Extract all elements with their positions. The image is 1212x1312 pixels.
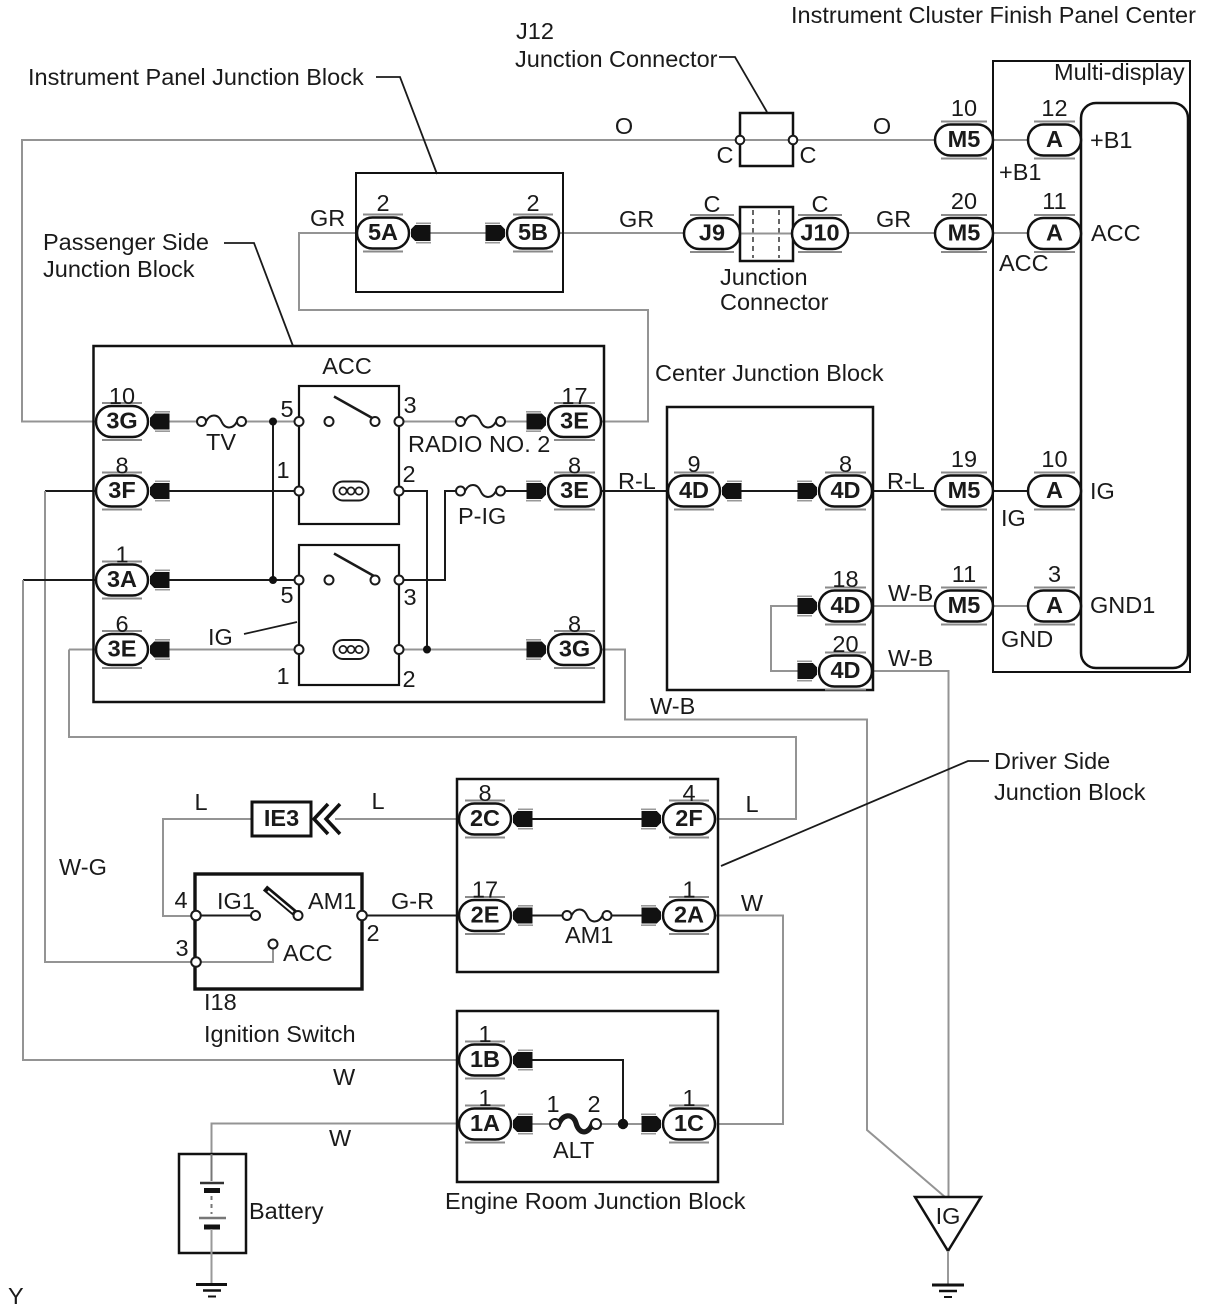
svg-text:J12: J12	[516, 18, 554, 44]
wire W-B : 4D(20) to IG ground	[872, 671, 949, 1197]
ground below battery	[196, 1285, 227, 1297]
svg-text:W-B: W-B	[650, 693, 695, 719]
svg-text:RADIO NO. 2: RADIO NO. 2	[408, 431, 550, 457]
svg-text:17: 17	[561, 383, 587, 409]
wire W-G stub 3F	[45, 490, 96, 492]
svg-text:1: 1	[276, 663, 289, 689]
svg-text:3A: 3A	[107, 566, 137, 592]
wire 3E(6) stub	[69, 649, 96, 651]
svg-text:1A: 1A	[470, 1110, 500, 1136]
svg-text:+B1: +B1	[1090, 127, 1132, 153]
wire bracket joining 4D(18) and 4D(20)	[771, 606, 801, 671]
svg-text:W-B: W-B	[888, 645, 933, 671]
connector J10 pin C	[792, 215, 848, 252]
svg-text:A: A	[1046, 126, 1063, 152]
node junction dot IG coil output	[423, 646, 431, 654]
arrow into 2C	[513, 809, 533, 828]
svg-text:10: 10	[951, 95, 977, 121]
svg-text:Junction Block: Junction Block	[994, 779, 1146, 805]
arrow into 2E	[513, 906, 533, 925]
svg-text:11: 11	[1042, 188, 1066, 214]
wire AM1 fuse to 2A arrow	[612, 915, 646, 917]
ground below IG triangle	[932, 1285, 964, 1297]
svg-text:Junction Block: Junction Block	[43, 256, 195, 282]
svg-text:Passenger Side: Passenger Side	[43, 229, 209, 255]
arrow into 3E(6)	[150, 640, 170, 659]
wire 3A row internal to IG relay pin 5	[166, 579, 299, 581]
wire 1A arrow to ALT fuse	[529, 1123, 551, 1125]
relay ACC switch contacts	[325, 417, 334, 426]
relay IG switch blade	[334, 554, 374, 577]
wire 1B arrow down to ALT junction	[529, 1060, 623, 1124]
leader line IG relay	[244, 622, 297, 634]
svg-text:Junction Connector: Junction Connector	[515, 46, 718, 72]
svg-text:4D: 4D	[830, 657, 860, 683]
svg-text:8: 8	[568, 611, 581, 637]
fuse TV	[197, 416, 246, 428]
connector A pin 11	[1028, 215, 1081, 252]
svg-text:3: 3	[1048, 561, 1061, 587]
wire W : battery to 1A	[212, 1124, 460, 1181]
svg-text:2C: 2C	[470, 805, 500, 831]
wire L : 3E(6) down around to 2F	[69, 650, 796, 820]
connector 4D pin 9	[668, 473, 720, 510]
svg-text:R-L: R-L	[887, 468, 925, 494]
wire M5(20) to A(11)	[993, 232, 1028, 234]
svg-text:3E: 3E	[560, 477, 589, 503]
svg-text:M5: M5	[948, 126, 981, 152]
arrow into 3E(17)	[526, 412, 546, 431]
wire M5(10) to A(12)	[993, 139, 1028, 141]
arrow into 1A	[513, 1114, 533, 1133]
svg-text:ACC: ACC	[999, 250, 1049, 276]
wire RADIO fuse to 3E(17) arrow	[505, 421, 530, 423]
relay IG pin 1	[295, 645, 304, 654]
connector M5 pin 11	[935, 588, 993, 625]
arrow into 3E(8)	[526, 481, 546, 500]
connector J9 pin C	[684, 215, 740, 252]
wire R-L : 4D(8) to M5(19)	[872, 490, 935, 492]
svg-text:10: 10	[109, 383, 135, 409]
wire W : 3A down and right to 1B	[23, 580, 459, 1060]
connector M5 pin 10	[935, 122, 993, 159]
svg-text:Driver Side: Driver Side	[994, 748, 1110, 774]
svg-text:ALT: ALT	[553, 1137, 594, 1163]
svg-text:A: A	[1046, 592, 1063, 618]
arrow into 4D(9)	[722, 481, 742, 500]
svg-text:3: 3	[403, 584, 416, 610]
connector M5 pin 19	[935, 473, 993, 510]
svg-text:L: L	[194, 789, 207, 815]
instrument panel junction block box	[356, 173, 563, 292]
connector 3F pin 8	[96, 473, 148, 510]
wire node junction TV/3A vertical	[272, 422, 274, 581]
svg-text:8: 8	[568, 453, 581, 479]
wire IG relay pin 3 up to P-IG fuse	[399, 491, 456, 580]
svg-text:6: 6	[115, 611, 128, 637]
svg-text:8: 8	[839, 451, 852, 477]
multi-display inner rounded box	[1081, 103, 1188, 668]
fuse P-IG	[456, 485, 505, 497]
svg-text:O: O	[873, 113, 891, 139]
svg-text:Ignition Switch: Ignition Switch	[204, 1021, 356, 1047]
relay IG pin 2	[395, 645, 404, 654]
svg-text:GND1: GND1	[1090, 592, 1155, 618]
svg-text:3F: 3F	[108, 477, 135, 503]
svg-text:1: 1	[546, 1091, 559, 1117]
junction connector J12 box	[740, 113, 793, 166]
relay IG box	[299, 545, 399, 685]
svg-text:IG: IG	[1001, 505, 1026, 531]
connector 2F pin 4	[663, 801, 715, 838]
arrow into 2F	[641, 809, 661, 828]
junction connector J9/J10 box	[740, 207, 793, 261]
svg-text:ACC: ACC	[1091, 220, 1141, 246]
ignition switch key blade	[265, 888, 296, 914]
wire W-B : 3G(8) to IG ground	[601, 650, 945, 1198]
driver side junction block box	[457, 779, 718, 972]
relay ACC box	[299, 386, 399, 524]
svg-text:2: 2	[402, 461, 415, 487]
wire M5(19) to A(10)	[993, 490, 1028, 492]
svg-text:1: 1	[478, 1021, 491, 1047]
ignition switch pin 3	[191, 957, 201, 967]
node junction dot TV/relay feed	[269, 418, 277, 426]
wire W : 2A down to 1C	[715, 916, 783, 1125]
arrow into 5B	[485, 223, 505, 242]
svg-text:C: C	[800, 142, 817, 168]
wire through J12 box	[740, 139, 793, 141]
ignition switch ACC contact	[269, 940, 278, 949]
wire 4D(9) to 4D(8) internal	[738, 490, 801, 492]
connector 3E pin 17	[548, 403, 601, 440]
connector 3A pin 1	[96, 562, 148, 599]
svg-text:A: A	[1046, 220, 1063, 246]
connector 3G pin 8	[548, 631, 601, 668]
svg-text:AM1: AM1	[308, 888, 356, 914]
svg-text:11: 11	[952, 561, 976, 587]
wire 3F row internal to ACC coil pin 1	[166, 490, 299, 492]
wire G-R : ignition pin 2 to 2E	[367, 915, 460, 917]
svg-text:GR: GR	[876, 206, 911, 232]
svg-text:3E: 3E	[108, 636, 137, 662]
wire through J9/J10 box	[741, 233, 792, 235]
wire O : +B1 feed from left edge to J12	[22, 140, 735, 422]
connector 5B pin 2	[507, 215, 559, 252]
svg-text:C: C	[704, 191, 721, 217]
relay ACC pin 3	[395, 417, 404, 426]
connector A pin 10	[1028, 473, 1081, 510]
svg-text:J10: J10	[800, 220, 839, 246]
connector 2A pin 1	[663, 897, 715, 934]
wire ignition pin 4 to IG1 contact	[201, 915, 252, 917]
ignition switch IG1 contact	[251, 911, 260, 920]
svg-text:L: L	[745, 791, 758, 817]
svg-text:Center Junction Block: Center Junction Block	[655, 360, 884, 386]
svg-text:12: 12	[1041, 95, 1067, 121]
svg-text:2: 2	[376, 190, 389, 216]
connector 4D pin 18	[819, 588, 872, 625]
connector 4D pin 8	[819, 473, 872, 510]
svg-text:2F: 2F	[675, 805, 702, 831]
svg-text:20: 20	[832, 631, 858, 657]
svg-text:2: 2	[366, 920, 379, 946]
center junction block box	[667, 407, 873, 690]
wire GR feed : 3E(17) to 5A	[299, 233, 648, 422]
multi-display outer box	[993, 61, 1190, 672]
svg-text:W: W	[329, 1125, 352, 1151]
svg-text:ACC: ACC	[283, 940, 333, 966]
connector 3E pin 8	[548, 473, 601, 510]
svg-text:3: 3	[175, 935, 188, 961]
svg-text:IG: IG	[936, 1203, 961, 1229]
arrow into 4D(20)	[797, 661, 817, 680]
passenger side junction block box	[94, 346, 605, 702]
wire M5(11) to A(3)	[993, 605, 1028, 607]
svg-text:GND: GND	[1001, 626, 1053, 652]
svg-text:1C: 1C	[674, 1110, 704, 1136]
wire W-G : 3F down to ignition pin 3	[45, 491, 192, 962]
svg-text:C: C	[812, 191, 829, 217]
connector 2E pin 17	[459, 897, 511, 934]
wire 2E arrow to AM1 fuse	[529, 915, 563, 917]
connector M5 pin 20	[935, 215, 993, 252]
junction connector J9/J10 dashed splice lines	[752, 210, 754, 258]
svg-text:3: 3	[403, 392, 416, 418]
svg-text:ACC: ACC	[322, 353, 372, 379]
svg-text:4: 4	[682, 780, 695, 806]
svg-text:AM1: AM1	[565, 922, 613, 948]
svg-text:O: O	[615, 113, 633, 139]
wire ignition pin 3 to ACC contact stem	[201, 949, 274, 963]
leader line Instrument Panel Junction Block	[376, 77, 437, 174]
engine room junction block box	[457, 1011, 718, 1182]
svg-text:1B: 1B	[470, 1046, 500, 1072]
relay ACC pin 5	[295, 417, 304, 426]
svg-text:5: 5	[280, 396, 293, 422]
relay ACC pin 1	[295, 487, 304, 496]
relay IG coil	[334, 640, 369, 659]
wire W-B : 4D(18) to M5(11)	[872, 605, 935, 607]
ground point IG triangle	[915, 1197, 981, 1251]
ignition switch AM1 contact	[294, 911, 303, 920]
connector 3E pin 6	[96, 631, 148, 668]
wire 2C to 2F internal	[529, 818, 645, 820]
svg-text:17: 17	[472, 877, 498, 903]
svg-text:A: A	[1046, 477, 1063, 503]
connector 1C pin 1	[663, 1106, 715, 1143]
svg-text:C: C	[717, 142, 734, 168]
arrow into 4D(8)	[797, 481, 817, 500]
node junction dot ALT output	[618, 1119, 628, 1129]
svg-text:Battery: Battery	[249, 1198, 324, 1224]
wire L : IE3 to ignition pin 4	[163, 819, 252, 916]
arrow into 5A	[411, 223, 431, 242]
fuse box IE3	[252, 802, 311, 836]
svg-text:Junction: Junction	[720, 264, 808, 290]
arrow into 3G(10)	[150, 412, 170, 431]
svg-text:GR: GR	[619, 206, 654, 232]
wire GR : 5B to J9	[559, 232, 684, 234]
relay IG switch contacts	[325, 576, 334, 585]
wire O : J12 to M5(10)	[798, 139, 935, 141]
svg-text:GR: GR	[310, 205, 345, 231]
svg-text:1: 1	[478, 1085, 491, 1111]
svg-text:G-R: G-R	[391, 888, 434, 914]
svg-text:3E: 3E	[560, 408, 589, 434]
wire 3G row : arrow to TV fuse	[166, 421, 197, 423]
leader line Driver Side Junction Block	[721, 761, 989, 866]
svg-text:Connector: Connector	[720, 289, 829, 315]
svg-text:9: 9	[687, 451, 700, 477]
relay IG pin 3	[395, 576, 404, 585]
wire 5A to 5B	[427, 232, 489, 234]
svg-text:Multi-display: Multi-display	[1054, 59, 1185, 85]
svg-text:2: 2	[526, 190, 539, 216]
wire ALT fuse to 1C arrow	[601, 1123, 646, 1125]
svg-text:W: W	[333, 1064, 356, 1090]
svg-text:1: 1	[115, 542, 128, 568]
wire IG coil pin 2 to 3G(8) arrow	[399, 649, 530, 651]
svg-text:5B: 5B	[518, 219, 548, 245]
svg-text:8: 8	[115, 453, 128, 479]
svg-text:2E: 2E	[471, 902, 500, 928]
svg-text:1: 1	[682, 1085, 695, 1111]
battery cell plates	[199, 1154, 226, 1283]
arrow into 3G(8)	[526, 640, 546, 659]
arrow into 3A(1)	[150, 570, 170, 589]
svg-text:8: 8	[478, 780, 491, 806]
svg-text:2: 2	[402, 666, 415, 692]
svg-text:Instrument Panel Junction Bloc: Instrument Panel Junction Block	[28, 64, 364, 90]
node junction dot 3A row	[269, 576, 277, 584]
arrow into 2A	[641, 906, 661, 925]
svg-text:3G: 3G	[106, 408, 137, 434]
svg-text:Y: Y	[8, 1283, 24, 1309]
arrow into 1B	[513, 1050, 533, 1069]
svg-text:L: L	[371, 788, 384, 814]
arrow into 3F(8)	[150, 481, 170, 500]
svg-text:M5: M5	[948, 477, 981, 503]
junction connector J12 terminal circles	[736, 136, 745, 145]
svg-text:Instrument Cluster Finish Pane: Instrument Cluster Finish Panel Center	[791, 2, 1196, 28]
svg-text:W: W	[741, 890, 764, 916]
fusible link ALT	[550, 1116, 601, 1132]
svg-text:W-B: W-B	[888, 580, 933, 606]
leader line Passenger Side Junction Block	[224, 243, 293, 346]
wire ACC coil pin 2 down to IG coil row	[399, 491, 427, 650]
svg-text:4D: 4D	[679, 477, 709, 503]
svg-text:4: 4	[174, 887, 187, 913]
connector 5A pin 2	[357, 215, 409, 252]
svg-text:IG: IG	[1090, 478, 1115, 504]
svg-text:Engine Room Junction Block: Engine Room Junction Block	[445, 1188, 746, 1214]
svg-text:TV: TV	[206, 429, 236, 455]
svg-text:2A: 2A	[674, 902, 704, 928]
wire GR : J10 to M5(20)	[848, 232, 935, 234]
svg-text:5A: 5A	[368, 219, 398, 245]
wire P-IG fuse to 3E(8) arrow	[505, 490, 530, 492]
svg-text:3G: 3G	[559, 636, 590, 662]
connector 4D pin 20	[819, 653, 872, 690]
svg-text:1: 1	[682, 877, 695, 903]
wire 3E(6) row internal to IG coil pin 1	[166, 649, 299, 651]
wire 3A stub	[23, 579, 96, 581]
arrow into 1C	[641, 1114, 661, 1133]
connector A pin 12	[1028, 122, 1081, 159]
svg-text:R-L: R-L	[618, 468, 656, 494]
svg-text:I18: I18	[204, 989, 237, 1015]
connector 3G pin 10	[96, 403, 148, 440]
svg-text:+B1: +B1	[999, 159, 1041, 185]
svg-text:10: 10	[1041, 446, 1067, 472]
svg-text:20: 20	[951, 188, 977, 214]
connector A pin 3	[1028, 588, 1081, 625]
ignition switch pin 4	[191, 911, 201, 921]
leader line J12 Junction Connector	[719, 57, 767, 112]
svg-text:18: 18	[832, 566, 858, 592]
IE3 double chevron	[314, 804, 340, 834]
wire 3G row : TV fuse to ACC relay pin 5 (junction at x273)	[246, 421, 299, 423]
wire L : 2C to IE3	[335, 818, 459, 820]
fuse AM1	[563, 910, 612, 922]
arrow into 4D(18)	[797, 596, 817, 615]
svg-text:M5: M5	[948, 220, 981, 246]
relay ACC switch blade	[334, 397, 374, 420]
svg-text:IG1: IG1	[217, 888, 255, 914]
svg-text:1: 1	[276, 457, 289, 483]
wire ACC relay pin 3 to RADIO fuse	[399, 421, 456, 423]
svg-text:5: 5	[280, 582, 293, 608]
relay IG pin 5	[295, 576, 304, 585]
svg-text:19: 19	[951, 446, 977, 472]
svg-text:W-G: W-G	[59, 854, 107, 880]
battery box	[179, 1154, 246, 1253]
svg-text:P-IG: P-IG	[458, 503, 506, 529]
svg-text:IE3: IE3	[264, 805, 299, 831]
connector 1B pin 1	[459, 1042, 511, 1079]
svg-text:4D: 4D	[830, 592, 860, 618]
relay ACC pin 2	[395, 487, 404, 496]
svg-text:IG: IG	[208, 624, 233, 650]
ignition switch pin 2	[357, 911, 367, 921]
svg-text:4D: 4D	[830, 477, 860, 503]
svg-text:2: 2	[587, 1091, 600, 1117]
connector 1A pin 1	[459, 1106, 511, 1143]
wire IG triangle to ground	[947, 1251, 949, 1284]
wire R-L : 3E(8) to 4D(9)	[601, 490, 668, 492]
ignition switch I18 box	[195, 874, 362, 989]
relay ACC coil	[334, 482, 369, 501]
svg-text:M5: M5	[948, 592, 981, 618]
fuse RADIO NO. 2	[456, 416, 505, 428]
svg-text:J9: J9	[699, 220, 725, 246]
connector 2C pin 8	[459, 801, 511, 838]
